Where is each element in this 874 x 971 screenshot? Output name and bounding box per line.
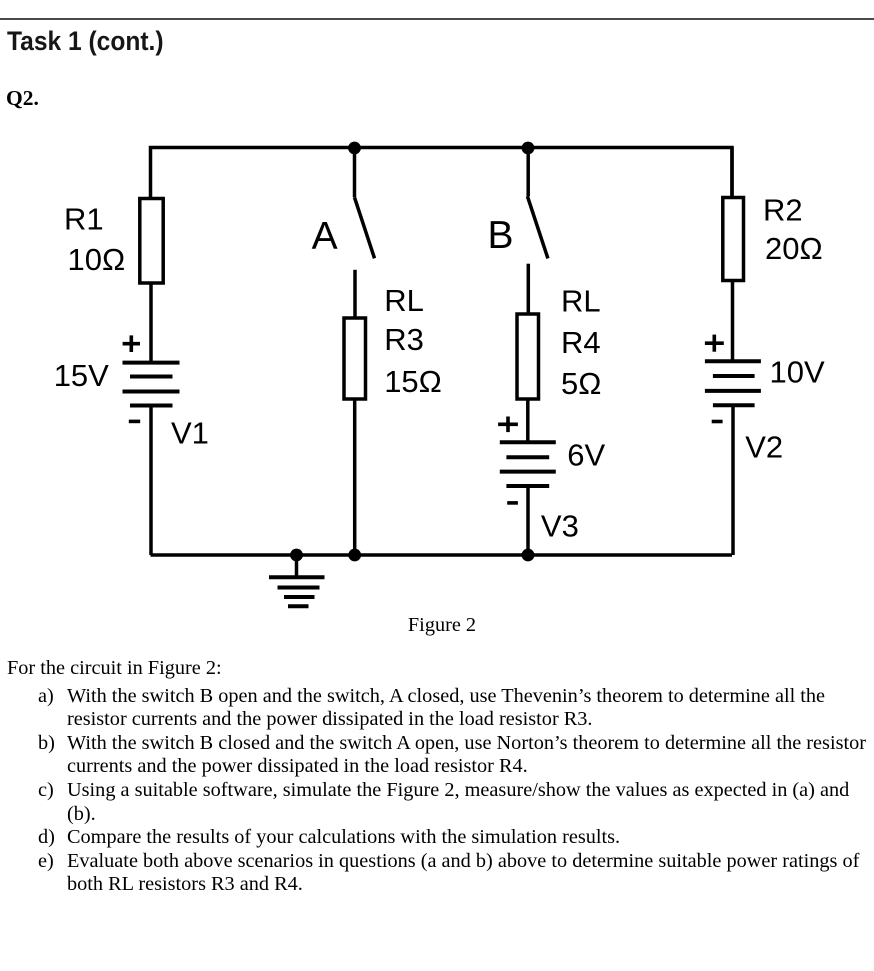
svg-text:5Ω: 5Ω (561, 366, 601, 401)
svg-text:20Ω: 20Ω (765, 231, 823, 266)
svg-text:V2: V2 (745, 430, 783, 465)
svg-text:10Ω: 10Ω (68, 242, 126, 277)
svg-text:6V: 6V (567, 438, 605, 473)
svg-text:B: B (488, 214, 514, 257)
svg-text:R1: R1 (64, 202, 104, 237)
svg-text:R2: R2 (763, 193, 803, 228)
svg-text:RL: RL (561, 284, 601, 319)
svg-text:R3: R3 (384, 322, 424, 357)
svg-text:15V: 15V (54, 358, 109, 393)
svg-text:15Ω: 15Ω (384, 364, 442, 399)
svg-text:R4: R4 (561, 325, 601, 360)
svg-text:V3: V3 (541, 509, 579, 544)
svg-text:10V: 10V (770, 355, 825, 390)
svg-text:A: A (312, 215, 338, 258)
svg-text:V1: V1 (171, 416, 209, 451)
svg-text:RL: RL (384, 283, 424, 318)
